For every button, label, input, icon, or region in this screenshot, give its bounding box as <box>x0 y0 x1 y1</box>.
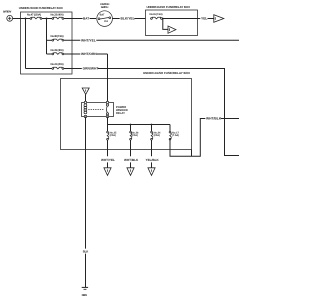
svg-text:UNDER-DASH FUSE/RELAY BOX: UNDER-DASH FUSE/RELAY BOX <box>143 71 190 75</box>
svg-text:WHT/YEL: WHT/YEL <box>81 39 96 43</box>
fuse No.35 (20A) <box>107 125 117 157</box>
svg-text:RELAY: RELAY <box>116 112 125 115</box>
wire connector to relay <box>85 94 87 102</box>
node <box>151 124 153 126</box>
fuse No.36 (20A) <box>130 125 139 157</box>
svg-text:No.33 (40A): No.33 (40A) <box>51 13 64 16</box>
svg-text:BATTERY: BATTERY <box>3 10 12 13</box>
svg-text:(7.5A): (7.5A) <box>172 134 179 137</box>
wire stub to connector <box>163 19 168 30</box>
wire GRN/WHT to right then down <box>98 69 239 156</box>
svg-text:UNDER-DASH FUSE/RELAY BOX: UNDER-DASH FUSE/RELAY BOX <box>147 5 191 9</box>
arrow down 3 <box>148 162 155 175</box>
wire battery to fuse box <box>13 18 31 20</box>
connector arrow in box <box>168 26 176 33</box>
node <box>162 18 164 20</box>
wire YEL out <box>198 18 201 20</box>
svg-text:WHT/BLK: WHT/BLK <box>206 117 222 121</box>
fuse No.34 (20A) <box>151 125 161 157</box>
svg-text:BAT: BAT <box>100 13 105 16</box>
svg-text:SWITCH: SWITCH <box>101 6 109 9</box>
svg-text:BLK/YEL: BLK/YEL <box>121 17 135 21</box>
under-hood fuse/relay box <box>19 6 72 74</box>
wire WHT/YEL to right edge <box>96 39 239 41</box>
wire drop to relay <box>107 54 109 103</box>
fuse bus <box>108 124 171 126</box>
ground G501 <box>82 287 89 297</box>
node battery bus <box>25 18 27 20</box>
svg-text:WHT/BLK: WHT/BLK <box>124 158 139 162</box>
svg-text:G501: G501 <box>82 293 88 297</box>
power window relay <box>82 101 129 117</box>
svg-text:(20A): (20A) <box>110 134 116 137</box>
fuse No.47 (120A) <box>27 13 42 19</box>
node after main fuse <box>46 18 48 20</box>
fuse No.35 (40A) <box>47 49 64 55</box>
wire WHT/YEL row <box>64 39 81 41</box>
connector triangle to relay <box>82 88 89 94</box>
svg-text:No.15 (7.5A): No.15 (7.5A) <box>150 13 163 16</box>
fuse No.17 (7.5A) <box>169 125 179 141</box>
under-dash fuse/relay box (top) <box>146 5 198 35</box>
wire WHT/ORN row <box>64 53 81 55</box>
fuse No.15 (7.5A) <box>150 13 163 19</box>
vertical bus left (battery feed) <box>25 19 27 69</box>
fuse No.38 (7.5A) <box>47 35 64 41</box>
svg-text:(20A): (20A) <box>132 134 138 137</box>
wire WHT/BLK from fuse 17 <box>170 119 205 157</box>
fuse No.41 (20A) <box>26 63 64 69</box>
svg-text:IG1: IG1 <box>104 20 109 23</box>
wire to BAT terminal <box>64 18 83 20</box>
wire <box>90 18 96 20</box>
arrow down 2 <box>127 162 134 175</box>
vertical bus mid (after fuse 47) <box>46 19 48 55</box>
svg-text:BLK: BLK <box>83 250 89 254</box>
wire to relay drop <box>97 53 108 55</box>
wire relay to fuse bus <box>107 117 109 125</box>
svg-text:BAT: BAT <box>83 16 89 20</box>
svg-text:No.41 (20A): No.41 (20A) <box>51 63 64 66</box>
node <box>130 124 132 126</box>
under-dash fuse/relay box (main) <box>61 71 192 150</box>
svg-text:(20A): (20A) <box>154 134 160 137</box>
svg-text:WHT/YEL: WHT/YEL <box>101 158 115 162</box>
ground wire <box>85 117 87 249</box>
wire <box>42 18 52 20</box>
svg-text:No.47 (120A): No.47 (120A) <box>27 13 41 16</box>
wire ignition to under-dash box <box>113 18 120 20</box>
wire GRN/WHT row <box>64 68 82 70</box>
svg-text:UNDER-HOOD FUSE/RELAY BOX: UNDER-HOOD FUSE/RELAY BOX <box>19 6 63 10</box>
svg-text:WHT/ORN: WHT/ORN <box>81 52 97 56</box>
svg-text:No.38 (7.5A): No.38 (7.5A) <box>51 35 64 38</box>
arrow down 1 <box>104 162 111 175</box>
ignition switch <box>97 3 113 27</box>
svg-text:YEL: YEL <box>201 17 207 21</box>
wire through box <box>162 18 197 20</box>
svg-text:YEL/BLK: YEL/BLK <box>146 158 160 162</box>
arrow to next page <box>214 15 224 23</box>
svg-text:GRN/WHT: GRN/WHT <box>83 67 99 71</box>
battery <box>3 10 13 21</box>
fuse No.33 (40A) <box>51 13 64 19</box>
svg-text:No.35 (40A): No.35 (40A) <box>51 49 64 52</box>
